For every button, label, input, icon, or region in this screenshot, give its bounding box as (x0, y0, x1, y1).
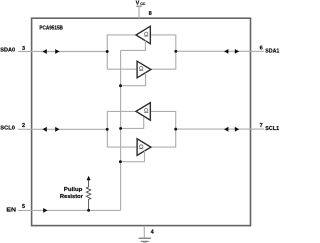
wire GND pin 4 (143, 226, 145, 238)
wire Vcc pin 8 (138, 6, 140, 18)
svg-text:2: 2 (22, 123, 25, 129)
arrow left SCL1 (224, 127, 228, 132)
svg-text:4: 4 (151, 229, 155, 235)
junction dot EN-U1D (119, 160, 122, 163)
wire SCL0 to U1C output (107, 111, 135, 129)
arrow left SDA0 (42, 49, 46, 54)
arrow right SDA0 (55, 49, 59, 54)
junction dot SCL0 (106, 128, 109, 131)
junction dot EN-U1C (119, 127, 122, 130)
wire U1A input from SDA1 (151, 35, 176, 51)
wire SCL1 pin 7 (176, 128, 264, 130)
buffer U1C (SCL, right-to-left) (136, 103, 150, 121)
arrow right SDA1 (235, 49, 239, 54)
wire EN to U1C enable (121, 117, 144, 129)
wire U1C input from SCL1 (151, 111, 176, 128)
wire EN trunk (120, 50, 122, 210)
wire EN to U1B enable (121, 73, 146, 86)
svg-text:SCL1: SCL1 (265, 126, 279, 132)
junction dot EN-U1B (119, 84, 122, 87)
arrow right SCL1 (235, 127, 239, 132)
wire SDA0 to U1A output (107, 35, 136, 52)
wire SCL0 pin 2 to junction (18, 128, 107, 130)
arrow left SDA1 (224, 49, 228, 54)
wire SDA0 pin 3 to junction (18, 51, 107, 53)
svg-text:Pullup: Pullup (64, 187, 83, 193)
buffer U1A (SDA, right-to-left) (136, 26, 150, 44)
svg-text:EN: EN (6, 207, 16, 213)
svg-text:3: 3 (22, 46, 25, 52)
wire U1D output to SCL1 (151, 130, 176, 148)
Vcc terminal tick (136, 5, 141, 7)
svg-text:5: 5 (22, 204, 25, 210)
arrow left SCL0 (42, 127, 46, 132)
wire SCL0 to U1D input (107, 129, 136, 147)
wire EN pin 5 (18, 209, 121, 211)
svg-text:V: V (136, 0, 140, 6)
wire EN to U1D enable (120, 151, 144, 162)
resistor R1 pullup (86, 180, 90, 210)
svg-text:SCL0: SCL0 (0, 126, 15, 132)
svg-text:SDA1: SDA1 (265, 48, 279, 54)
arrow right SCL0 (55, 127, 59, 132)
arrow right EN (43, 208, 47, 213)
arrow resistor to Vcc (87, 176, 91, 181)
wire U1B output to SDA1 (151, 52, 176, 69)
ground (139, 237, 151, 239)
svg-text:8: 8 (149, 11, 152, 17)
svg-text:SDA0: SDA0 (0, 48, 15, 54)
wire SDA1 pin 6 (176, 50, 264, 52)
junction dot SCL1 (174, 128, 177, 131)
svg-text:7: 7 (260, 123, 263, 129)
wire SDA0 to U1B input (107, 52, 137, 70)
junction dot EN-resistor (87, 209, 90, 212)
buffer U1D (SCL, left-to-right) (137, 139, 151, 156)
buffer U1B (SDA, left-to-right) (137, 61, 151, 78)
svg-text:Resistor: Resistor (60, 194, 84, 200)
wire EN to U1A enable (121, 41, 146, 51)
svg-text:PCA9515B: PCA9515B (39, 25, 63, 31)
junction dot SDA0 (106, 50, 109, 53)
svg-text:CC: CC (140, 1, 145, 6)
junction dot SDA1 (174, 50, 177, 53)
IC boundary box U1 (32, 18, 251, 225)
